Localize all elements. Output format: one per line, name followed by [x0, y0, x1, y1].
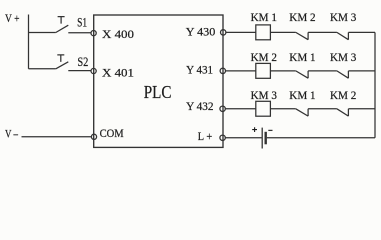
svg-text:KM 1: KM 1 [251, 12, 278, 24]
wire coil KM3 to contact [270, 108, 295, 110]
coil KM1 [256, 25, 271, 40]
svg-text:Y 431: Y 431 [186, 63, 213, 77]
wire rung 3 to bus [348, 108, 375, 110]
terminal Y432 [220, 106, 225, 111]
terminal COM [91, 134, 96, 139]
coil KM3 [256, 101, 271, 116]
svg-text:S2: S2 [77, 54, 88, 69]
switch S1 actuator [58, 17, 65, 24]
wire rung 1 to bus [348, 31, 375, 33]
wire Y430 rung stub [226, 31, 256, 33]
svg-text:KM 3: KM 3 [251, 90, 278, 102]
wire branch 1 to S1 [29, 32, 56, 34]
PLC box U1 [94, 15, 223, 147]
wire coil KM2 to contact [270, 70, 295, 72]
wire coil KM1 to contact [270, 31, 295, 33]
switch S2 actuator [57, 55, 64, 62]
svg-text:S1: S1 [77, 15, 87, 30]
wire V+ vertical feeder [28, 15, 30, 69]
contact KM2 (NC, rung 3) [337, 109, 349, 116]
svg-text:X 400: X 400 [102, 27, 134, 41]
terminal X401 [91, 68, 96, 73]
wire V- to COM [22, 136, 92, 138]
battery BT1 positive plate [261, 128, 263, 149]
svg-text:KM 1: KM 1 [289, 90, 316, 102]
terminal L+ [220, 135, 225, 140]
svg-text:KM 2: KM 2 [251, 52, 278, 64]
wire rung 3 [308, 108, 337, 110]
wire bottom from L+ to battery [225, 137, 261, 139]
svg-text:Y 432: Y 432 [186, 99, 214, 113]
svg-text:KM 1: KM 1 [289, 52, 316, 64]
battery minus sign [268, 129, 272, 131]
svg-text:V +: V + [5, 13, 20, 25]
contact KM2 (NC, rung 1) [296, 32, 308, 39]
terminal Y431 [220, 68, 225, 73]
battery plus label [252, 127, 257, 132]
svg-text:COM: COM [100, 128, 124, 140]
contact KM1 (NC, rung 2) [296, 71, 308, 78]
wire S2 to X401 [68, 70, 91, 72]
contact KM1 (NC, rung 3) [296, 109, 308, 116]
svg-text:KM 2: KM 2 [289, 12, 316, 24]
svg-text:V –: V – [5, 128, 18, 140]
wire Y431 rung stub [225, 70, 255, 72]
terminal Y430 [221, 30, 226, 35]
coil KM2 [256, 63, 271, 78]
contact KM3 (NC, rung 1) [337, 32, 349, 39]
switch S2 blade [56, 62, 69, 69]
wire branch 2 to S2 [29, 68, 56, 70]
svg-text:KM 3: KM 3 [330, 12, 357, 24]
contact KM3 (NC, rung 2) [337, 71, 349, 78]
svg-text:KM 3: KM 3 [330, 52, 357, 64]
switch S1 blade [56, 25, 69, 32]
battery BT1 negative plate [265, 132, 267, 145]
wire right bus [374, 32, 376, 137]
wire battery to bus [267, 137, 375, 139]
svg-text:Y 430: Y 430 [186, 24, 216, 38]
svg-text:KM 2: KM 2 [330, 90, 357, 102]
svg-text:PLC: PLC [144, 82, 172, 102]
wire rung 2 to bus [348, 70, 375, 72]
svg-text:X 401: X 401 [102, 65, 134, 79]
wire rung 2 [308, 70, 337, 72]
wire S1 to X400 [68, 32, 91, 34]
svg-text:L +: L + [198, 131, 212, 143]
wire Y432 rung stub [225, 108, 256, 110]
wire rung 1 [308, 31, 337, 33]
terminal X400 [91, 30, 96, 35]
